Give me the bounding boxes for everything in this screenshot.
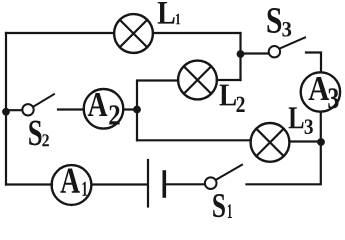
wire A3 bottom to bottom-right corner xyxy=(247,112,321,184)
wire left rail xyxy=(5,33,7,185)
wire battery to S1 xyxy=(166,183,205,185)
label L2 xyxy=(220,85,245,112)
switch S3 xyxy=(269,38,305,58)
switch S1 xyxy=(205,165,242,189)
label S2 xyxy=(29,121,49,147)
label A1 xyxy=(60,169,87,196)
node dot right of A2 xyxy=(133,106,141,114)
wire S3 fixed contact to A3 top xyxy=(306,53,321,73)
battery short plate xyxy=(163,172,167,196)
wire A2 left xyxy=(58,108,84,110)
wire bottom left segment xyxy=(6,183,52,185)
wire node to switch S3 xyxy=(241,52,269,54)
label L1 xyxy=(158,2,181,24)
label A3 xyxy=(309,77,339,109)
wire L2 left to branch vertical xyxy=(137,81,178,141)
label S1 xyxy=(213,194,232,218)
lamp L1 xyxy=(114,14,153,53)
wire node down to L2 right xyxy=(217,79,241,81)
node dot on left rail xyxy=(2,108,10,116)
label A2 xyxy=(88,93,120,125)
battery long plate xyxy=(147,160,149,207)
wire rail to S2 xyxy=(6,109,22,111)
wire lower branch to L3 xyxy=(137,139,251,141)
lamp L3 xyxy=(251,123,290,162)
ammeter A2 xyxy=(84,89,124,129)
lamp L2 xyxy=(178,61,217,100)
ammeter A3 xyxy=(301,72,340,111)
wire A1 to battery xyxy=(92,183,147,185)
node dot top junction xyxy=(237,50,245,58)
switch S2 xyxy=(22,94,54,115)
label L3 xyxy=(289,107,313,134)
wire top left segment xyxy=(6,32,114,34)
wire top right segment xyxy=(153,32,241,34)
node dot right of L3 xyxy=(317,138,325,146)
wire A2 right to junction xyxy=(124,108,138,110)
wire vertical drop to node xyxy=(239,33,241,80)
ammeter A1 xyxy=(52,165,92,205)
wire L3 right to rail xyxy=(290,140,321,142)
label S3 xyxy=(268,8,292,37)
